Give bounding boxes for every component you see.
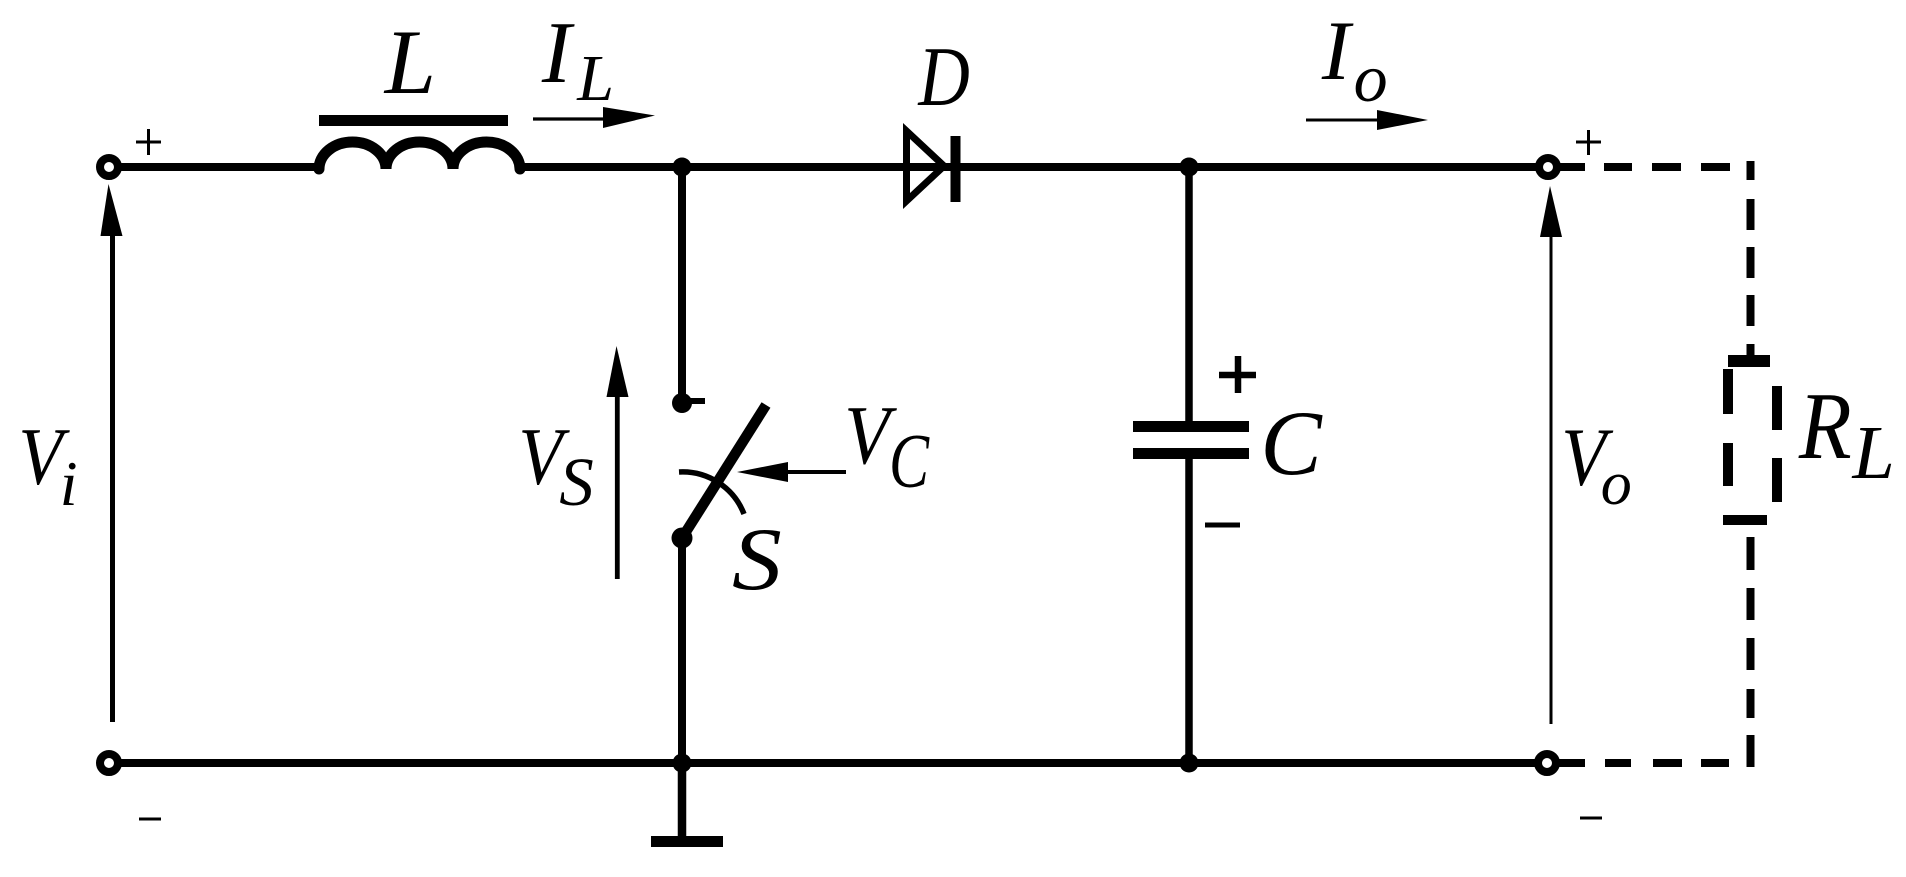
svg-text:o: o [1601, 450, 1632, 518]
node A junction dot (inductor/switch/diode) [673, 158, 692, 177]
label V_i [18, 411, 77, 519]
wire node A down to switch [678, 167, 686, 403]
control arrow V_C [737, 462, 846, 482]
label R_L [1798, 373, 1895, 495]
dashed wire output top to load [1604, 163, 1730, 171]
switch S travel arc [679, 472, 744, 514]
label I_L [541, 5, 614, 115]
svg-text:L: L [576, 42, 614, 115]
svg-text:I: I [541, 5, 575, 102]
ground stem [678, 763, 687, 838]
output terminal plus circle [1539, 158, 1557, 176]
switch S blade [682, 405, 766, 538]
wire top rail [113, 163, 319, 171]
wire bottom rail [113, 759, 1585, 767]
wire switch to bottom rail [678, 538, 686, 763]
ground bar [651, 836, 723, 847]
inductor L core bar [319, 115, 508, 126]
junction dot capacitor bottom [1180, 754, 1199, 773]
input minus sign [139, 818, 161, 821]
label V_o [1561, 411, 1632, 518]
capacitor plus sign [1219, 356, 1256, 393]
output plus sign [1576, 130, 1601, 155]
inductor L winding [319, 142, 520, 169]
dashed wire resistor down to bottom corner [1747, 537, 1755, 764]
switch S top contact dot [672, 393, 692, 413]
dashed wire bottom corner to output minus [1605, 759, 1755, 767]
svg-text:C: C [889, 418, 930, 504]
svg-text:R: R [1798, 373, 1852, 479]
switch S contact tick [688, 398, 705, 404]
svg-text:D: D [917, 29, 969, 123]
label I_o [1321, 4, 1388, 116]
input terminal plus circle [100, 158, 118, 176]
capacitor C bottom lead [1185, 459, 1193, 763]
capacitor C top lead [1185, 167, 1193, 421]
capacitor C bottom plate [1133, 448, 1249, 459]
svg-text:I: I [1321, 4, 1354, 98]
voltage arrow V_S [607, 346, 629, 579]
svg-text:L: L [1852, 411, 1895, 495]
voltage arrow V_o [1540, 186, 1562, 724]
output minus sign [1580, 817, 1602, 820]
input plus sign [136, 129, 161, 155]
node B junction dot (diode/capacitor) [1180, 158, 1199, 177]
current arrow I_o [1306, 110, 1428, 130]
dashed wire load right side down to resistor [1747, 161, 1755, 360]
source arrow V_i [101, 184, 123, 722]
resistor R_L dashed body [1723, 355, 1782, 525]
label V_S [518, 411, 593, 520]
diode D triangle [907, 131, 945, 201]
svg-text:L: L [383, 11, 436, 113]
label V_C [844, 389, 930, 504]
diode D cathode bar [951, 136, 961, 202]
wire top rail right of inductor [520, 163, 1585, 171]
capacitor C top plate [1133, 421, 1249, 432]
svg-text:S: S [732, 511, 782, 609]
switch S bottom pivot dot [672, 528, 693, 549]
svg-text:C: C [1260, 392, 1323, 494]
junction dot bottom rail / ground [673, 754, 692, 773]
input terminal minus circle [100, 754, 118, 772]
current arrow I_L [533, 107, 655, 128]
output terminal minus circle [1538, 754, 1556, 772]
capacitor minus sign [1205, 523, 1240, 528]
svg-text:i: i [60, 448, 78, 519]
svg-text:S: S [559, 444, 594, 520]
svg-text:o: o [1354, 40, 1388, 116]
